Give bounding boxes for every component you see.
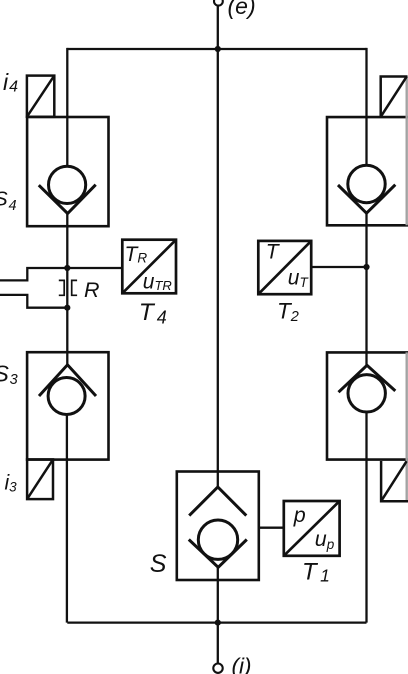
svg-text:(i): (i) [232,654,252,674]
svg-text:S: S [150,550,167,578]
svg-text:(e): (e) [228,0,256,19]
svg-text:p: p [293,503,306,527]
svg-text:T: T [266,241,281,264]
svg-text:R: R [84,278,100,302]
